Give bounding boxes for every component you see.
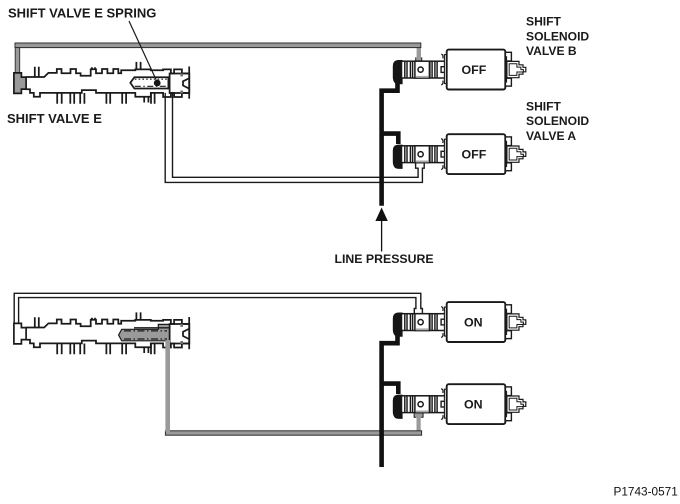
svg-text:VALVE B: VALVE B — [526, 44, 577, 58]
valve E spool (shifted, pressurized gray) with spring chamber — [119, 324, 170, 340]
svg-text:SHIFT VALVE E SPRING: SHIFT VALVE E SPRING — [8, 5, 156, 20]
leader line from SPRING label to spring seat — [129, 21, 156, 80]
spring seat dot — [154, 80, 161, 87]
valve E left end cap (gray) — [14, 73, 26, 94]
wire: pressurized gray pipe from valve E to solenoid B — [417, 45, 421, 62]
wire: pipe from valve E to solenoid A (unpressurized, double line) — [165, 93, 424, 182]
line pressure arrow (points up) — [375, 208, 387, 222]
svg-text:ON: ON — [464, 316, 483, 330]
svg-text:OFF: OFF — [462, 63, 487, 77]
svg-text:SHIFT: SHIFT — [526, 15, 562, 29]
spring chamber box + spool end — [130, 77, 168, 88]
svg-text:VALVE A: VALVE A — [526, 129, 576, 143]
svg-text:SHIFT VALVE E: SHIFT VALVE E — [7, 111, 102, 126]
wire: line pressure branch to solenoid A (bottom) — [382, 384, 399, 394]
wire: gray pipe riser from valve E spring chamber — [165, 340, 170, 432]
spring (dotted) — [135, 78, 168, 80]
svg-text:SOLENOID: SOLENOID — [526, 29, 589, 43]
svg-text:LINE PRESSURE: LINE PRESSURE — [335, 252, 434, 266]
spring (dash-dot, compressed) — [124, 330, 167, 332]
valve E outline — [26, 62, 189, 104]
wire: line pressure main line (thick, bottom) to solenoid B — [382, 327, 398, 468]
solenoid valve A (shift solenoid valve A) — [393, 134, 526, 174]
svg-text:SOLENOID: SOLENOID — [526, 114, 589, 128]
svg-text:OFF: OFF — [462, 148, 487, 162]
svg-text:P1743-0571: P1743-0571 — [614, 484, 678, 498]
wire: pipe from valve E to solenoid B (bottom diagram, unpressurized double line) — [14, 293, 422, 323]
wire: line pressure main line (thick) to solenoid B — [382, 74, 398, 206]
wire: pressurized gray pipe from valve E to solenoid A (bottom diagram) — [414, 413, 423, 418]
wire: line pressure branch to solenoid A — [382, 134, 399, 144]
svg-text:SHIFT: SHIFT — [526, 99, 562, 113]
svg-text:ON: ON — [464, 398, 483, 412]
solenoid valve B (shift solenoid valve B) — [393, 50, 526, 90]
solenoid valve B (bottom diagram, energized) — [393, 302, 526, 342]
valve E outline (bottom diagram) — [26, 312, 189, 354]
valve E (bottom diagram) left end cap — [14, 323, 26, 344]
solenoid valve A (bottom diagram, energized) — [393, 384, 526, 424]
